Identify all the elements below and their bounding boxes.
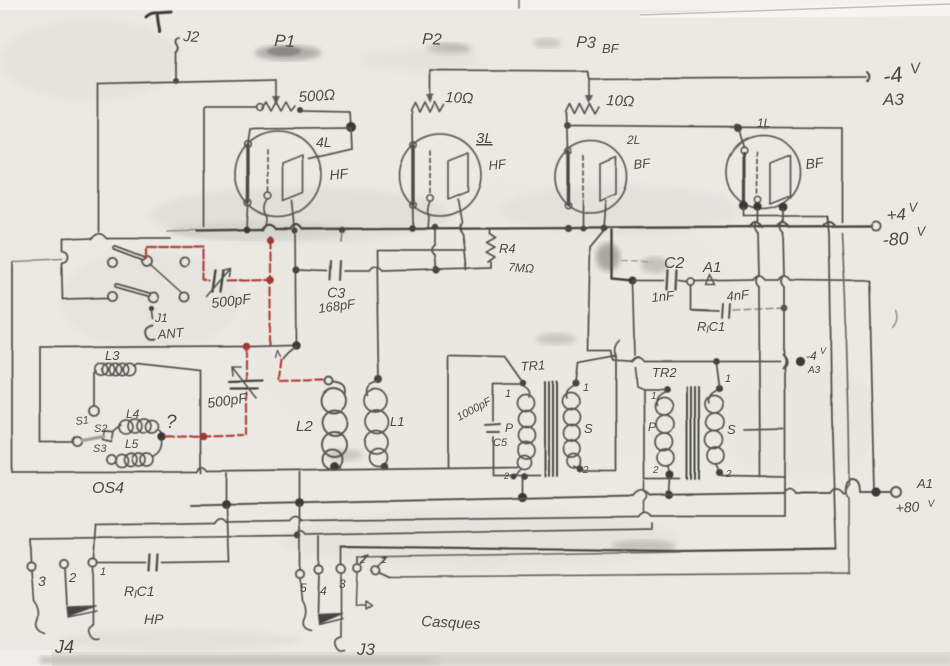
faint erased dash <box>622 261 652 262</box>
tube V2 grid dashed line <box>429 151 431 194</box>
wire +4V/-80V main bus <box>197 226 870 231</box>
jack J3 pin4 lower lead <box>318 574 319 612</box>
wire node down to tube V1 plate <box>309 128 352 159</box>
wire HP line A long <box>96 516 783 525</box>
wire OS4 box right edge <box>199 370 201 473</box>
wire right vertical from screen line down <box>841 128 843 222</box>
svg-text:4: 4 <box>320 584 327 598</box>
contact circle S1 <box>89 406 99 416</box>
wire hop of V2 lead over L1 top line <box>432 245 435 255</box>
svg-text:2: 2 <box>359 555 366 566</box>
svg-text:1L: 1L <box>757 116 770 130</box>
coil L2 top lead <box>333 382 346 395</box>
wire hops on V4 plate drop <box>780 221 787 367</box>
coil L3 loops <box>95 363 135 375</box>
switch contact circles bottom row <box>107 291 116 300</box>
transformer TR2 secondary winding <box>708 389 719 470</box>
jack J4 pin1 riser from HP line <box>94 525 96 559</box>
paper edge tick top <box>518 0 520 8</box>
capacitor C2 plates <box>667 271 677 290</box>
svg-text:1: 1 <box>100 566 106 578</box>
wire hop over left vertical <box>90 233 106 239</box>
tube V4 filament bottom dot <box>739 201 748 210</box>
wire hop over red vertical on bus <box>262 225 276 230</box>
grid-leak A1 triangle mark <box>706 275 715 285</box>
transformer TR1 secondary pin 1 dot <box>572 379 579 386</box>
wire J2 to bus <box>175 53 177 81</box>
wire V3 plate drop below bus to -4V A3 line <box>588 230 628 361</box>
transformer TR2 core laminations <box>687 387 699 479</box>
transformer TR1 secondary pin 2 dot <box>577 466 584 473</box>
svg-text:BF: BF <box>602 41 620 56</box>
capacitor C4 4nF branch: lead down and across <box>691 286 719 311</box>
wire riser ground bus to A1 bus (mid) <box>299 472 301 503</box>
node junctions on A1 bus left <box>222 500 231 509</box>
svg-text:HF: HF <box>488 156 508 173</box>
hop on line B <box>296 532 306 536</box>
red trace tuning riser vertical <box>245 348 247 434</box>
potentiometer P3 body 10ohm <box>566 104 599 114</box>
wire V3 grid pin to bus <box>582 200 584 228</box>
svg-text:Casques: Casques <box>421 613 482 633</box>
jack J3 pin3 riser from line C <box>340 548 342 565</box>
wire V4 cathode drop to TR2 S box (long vertical) <box>758 209 760 477</box>
jack J3 pin2 riser from line D <box>356 557 358 564</box>
jack J3 blade triangle <box>318 613 342 623</box>
wire OS4 box top edge <box>40 345 293 347</box>
red vertical trace <box>269 240 271 345</box>
capacitor/resistor RC network lead <box>97 562 229 563</box>
svg-text:L5: L5 <box>125 437 139 451</box>
svg-text:P: P <box>648 420 656 434</box>
svg-text:2: 2 <box>503 471 509 481</box>
tube V1 grid dashed line <box>267 150 269 192</box>
tube V4 grid pin circle and dot <box>755 197 761 203</box>
coil L1 top lead <box>367 382 378 396</box>
wire bus from corner to P1 wiper <box>98 80 276 84</box>
wire V2 grid pin to bus <box>428 201 430 229</box>
svg-text:L3: L3 <box>105 348 120 363</box>
contact S2 small square <box>102 430 113 441</box>
node TR2 S riser on -4V A3 line <box>713 358 720 365</box>
capacitor C4 4nF plates <box>722 304 730 318</box>
node on screen line at tube V4 <box>734 124 742 132</box>
svg-text:P2: P2 <box>422 31 442 49</box>
wire A1 HT bus <box>190 492 890 505</box>
potentiometer P2 body 10ohm <box>411 102 444 112</box>
terminal dot P1 right <box>297 107 303 113</box>
wire screen riser continuation down to line E <box>842 233 849 484</box>
wire L4 right lead to tap node <box>158 430 162 437</box>
svg-text:4nF: 4nF <box>726 287 751 304</box>
wire OS4 box bottom-left to S3 <box>40 441 72 443</box>
node red riser top <box>242 342 250 350</box>
wire OS4 box left edge <box>39 347 41 442</box>
svg-text:V: V <box>820 346 827 356</box>
wire TR2 S box link to plate drop <box>744 429 783 430</box>
node V3 pins at bus <box>564 224 571 231</box>
svg-text:OS4: OS4 <box>92 480 124 497</box>
wire hop on return bus <box>196 468 206 472</box>
svg-text:L2: L2 <box>296 418 313 435</box>
svg-text:HF: HF <box>329 165 351 183</box>
svg-text:S: S <box>584 421 593 436</box>
svg-text:2: 2 <box>725 469 732 480</box>
wire hops on V4 cathode drop <box>755 221 759 287</box>
svg-text:BF: BF <box>805 154 826 172</box>
wire V3 plate pin to bus <box>604 201 606 228</box>
tube V3 2L BF envelope <box>555 141 627 213</box>
red trace tap to tuning cap riser <box>166 435 243 437</box>
node A1 bus right <box>871 487 880 496</box>
svg-text:1nF: 1nF <box>651 288 676 305</box>
wire ground return bus (box bottom long line) <box>12 467 517 472</box>
wire V1 plate pin down through bus to C3 node <box>292 201 296 345</box>
jack J3 pin4 riser from line B <box>318 537 320 566</box>
wire -80V feed vertical (dark) <box>612 230 633 281</box>
variable capacitor C6 500pF plates <box>228 380 262 388</box>
tube V2 filament thick line <box>411 146 414 204</box>
transformer TR2 primary box left edge <box>644 389 680 479</box>
svg-text:?: ? <box>166 412 177 433</box>
node V1 wire at bus <box>292 228 298 234</box>
svg-text:-80: -80 <box>882 228 909 250</box>
svg-text:C5: C5 <box>493 437 508 449</box>
wire hop on -4V A3 line <box>632 357 644 361</box>
svg-text:P3: P3 <box>576 34 597 52</box>
wire feedback line E corner <box>389 498 849 577</box>
tube V4 grid cap circle <box>741 147 748 154</box>
red trace from switch to C1 cap <box>146 236 274 345</box>
svg-text:A3: A3 <box>882 90 904 109</box>
node C2 left <box>629 277 637 285</box>
resistor R4 bottom lead <box>490 262 492 268</box>
wire RC right riser to A1 bus node <box>227 506 229 562</box>
wire V2 plate pin through bus to C3 line <box>458 199 465 250</box>
wire diagonal from L2 node to red link <box>283 346 296 358</box>
wire hops over verticals on A1 line <box>753 276 790 280</box>
tube V1 filament bottom pin circle <box>245 200 252 207</box>
wire left vertical from bus corner down to switch bracket <box>97 84 99 231</box>
wire P1 right to anode node of tube V1 <box>303 111 351 128</box>
svg-text:P1: P1 <box>274 31 296 51</box>
transformer TR1 secondary winding <box>566 385 578 469</box>
wire hop over plate wire on bus <box>291 225 302 230</box>
coil L5 loops <box>116 454 154 468</box>
tube V2 filament pin circles <box>410 142 416 148</box>
svg-text:1: 1 <box>651 391 657 402</box>
node junction on bus at J2 <box>173 78 179 84</box>
tube V4 1L BF envelope <box>726 135 800 209</box>
potentiometer P2 wiper arrow <box>429 88 431 98</box>
jack J3 pin circles <box>296 570 304 578</box>
transformer TR2 secondary pin 1 dot <box>715 384 722 391</box>
svg-text:1: 1 <box>725 373 731 385</box>
wire L5 right lead up to tap node <box>153 441 162 457</box>
node junctions on bus <box>339 227 345 233</box>
terminal circle A1 +80V <box>891 487 901 497</box>
svg-text:1: 1 <box>381 555 387 566</box>
tube V4 plate pin dot <box>779 203 788 212</box>
wire faint line from bracket notch to far-left vertical <box>12 260 62 262</box>
big hop on A1 HT bus <box>845 479 860 493</box>
jack J3 pin2 tick <box>360 555 368 564</box>
coil L4 loops <box>119 419 159 434</box>
svg-text:2: 2 <box>582 465 589 476</box>
wire C2 left lead <box>633 280 664 282</box>
resistor R4 zigzag <box>486 233 495 262</box>
tube V1 grid pin circle <box>265 193 272 200</box>
wire +4V/-80V main bus faint left lead <box>167 230 197 231</box>
tube V3 anode plate <box>600 157 616 201</box>
wire V4 grid from screen line <box>739 130 744 147</box>
transformer TR1 core laminations <box>545 382 557 476</box>
transformer TR1 primary winding <box>515 385 530 475</box>
switch contact circles top row <box>107 257 116 266</box>
node L4/L5 tap <box>158 433 166 441</box>
wire L1 riser and top line <box>377 250 466 379</box>
jack J3 pin3 lower lead with C hook <box>335 573 345 652</box>
wire L3 right lead to box right edge <box>133 363 200 370</box>
variable capacitor C1 500pF plates <box>213 271 224 292</box>
switch rotor diagonal <box>150 264 182 293</box>
coil L1 bottom terminal dot <box>380 462 388 470</box>
terminal circle +4V/-80V <box>871 221 880 230</box>
wire TR2 S pin1 riser to -4V A3 line <box>716 363 719 386</box>
svg-text:500Ω: 500Ω <box>298 86 336 106</box>
switch S bracket bottom edge <box>63 298 107 299</box>
svg-text:L1: L1 <box>390 414 404 429</box>
tube V3 grid dashed line <box>582 156 584 198</box>
svg-text:RlC1: RlC1 <box>697 319 725 336</box>
jack J4 pin3 riser <box>30 539 31 562</box>
coil L2 bottom lead <box>336 466 340 468</box>
svg-text:3: 3 <box>339 577 346 591</box>
svg-text:J4: J4 <box>54 637 74 657</box>
antenna T symbol <box>146 12 171 32</box>
svg-text:1: 1 <box>583 382 589 394</box>
jack J1 lead squiggle <box>151 310 152 318</box>
contact circle L5 left <box>106 454 115 463</box>
stray curl mark <box>892 310 896 327</box>
wire C3 line from V1 plate node to R4 <box>296 268 491 271</box>
switch S bracket left edge with notch <box>62 240 68 299</box>
tube V1 filament top pin circle <box>245 141 252 148</box>
wire 1000pF branch vertical <box>447 356 449 467</box>
svg-text:R4: R4 <box>499 241 516 256</box>
jack J4 pin3 lower hook <box>31 570 45 634</box>
red node dots <box>266 236 273 243</box>
svg-text:5: 5 <box>300 581 307 595</box>
terminal mark -4V end <box>867 72 869 81</box>
svg-text:P: P <box>505 421 513 435</box>
svg-text:S3: S3 <box>93 443 107 455</box>
svg-text:S2: S2 <box>94 423 107 435</box>
node grid-wire junction on bus <box>244 227 251 234</box>
svg-text:2L: 2L <box>626 133 640 147</box>
hook above TR1 secondary box <box>615 341 620 356</box>
wire TR2 feed from C2 node <box>633 283 644 389</box>
wire V4 filament link horizontal <box>744 208 827 222</box>
coil L1 loops <box>365 390 389 467</box>
jack J4 pin circles <box>27 562 35 570</box>
tube V3 filament thick line <box>566 152 569 204</box>
svg-text:A3: A3 <box>807 365 821 376</box>
coil L2 bottom terminal dot <box>330 462 339 471</box>
wire A1 line to right corner <box>695 280 869 281</box>
wire 4nF to right vertical (faint dashes) <box>733 308 784 310</box>
wire C2 right lead to A1 node <box>679 281 687 282</box>
wire TR2 box left edge extension over buses <box>643 481 645 512</box>
svg-text:HP: HP <box>144 611 164 627</box>
jack J3 pin5 riser from A1 bus <box>299 505 301 570</box>
jack J3 pin2 lower lead and mini arrow <box>356 572 372 609</box>
node on C3 line <box>292 266 299 273</box>
wire -4V bus segment P2 top <box>430 70 866 88</box>
wire hop over L1 riser on C3 line <box>369 267 382 271</box>
switch blade S3-S2 (faint) <box>82 436 103 440</box>
wire V1 filament pin to cathode bus <box>247 206 248 229</box>
wire J3 pin1 diagonal to line E <box>378 572 389 577</box>
tube V2 3L HF envelope <box>399 134 481 216</box>
transformer TR2 primary winding <box>656 391 670 472</box>
wire TR1 P pin2 to A1 bus <box>521 478 523 497</box>
svg-text:7MΩ: 7MΩ <box>508 260 535 276</box>
wire feedback line C (dark) corner <box>341 547 836 551</box>
svg-text:-4: -4 <box>881 61 904 88</box>
potentiometer P1 body 500ohm <box>262 102 295 111</box>
switch arm 1 (double stroke) <box>114 247 143 258</box>
svg-text:S: S <box>727 422 736 437</box>
wire V4 plate drop long vertical to HP line <box>783 209 785 516</box>
svg-text:ANT: ANT <box>156 325 185 342</box>
svg-text:3L: 3L <box>476 130 493 147</box>
tube V2 grid pin circle <box>427 195 433 201</box>
coil L2 loops <box>322 389 348 470</box>
wire hops on A1 HT bus <box>634 489 843 497</box>
svg-text:C2: C2 <box>664 255 685 272</box>
svg-text:3: 3 <box>38 573 46 589</box>
contact circle S3 <box>72 436 81 445</box>
wire screen line to tube V4 grid (long horizontal) <box>568 126 842 128</box>
wire V2 lead below bus to C3 line <box>435 229 436 270</box>
jack J1 C hook (ANT) <box>145 325 154 339</box>
wire L3 left lead down to S1 <box>94 371 96 405</box>
svg-text:TR2: TR2 <box>652 365 677 380</box>
wire corner down from A1 line (right) <box>869 281 874 490</box>
tube V2 anode plate <box>448 153 468 199</box>
hops on HP line A <box>214 513 651 523</box>
terminal circle A1 node <box>687 278 694 285</box>
RC capacitor plates <box>149 555 158 571</box>
red trace link to L2 <box>278 359 323 381</box>
node TR1 at A1 bus <box>517 492 526 501</box>
svg-text:2: 2 <box>652 465 659 476</box>
node TR1 P terminal 1 <box>520 380 526 386</box>
wire 1000pF top link to TR1 P terminal <box>448 356 521 380</box>
jack J4 pin2 lead and contact blade <box>65 568 67 605</box>
wire line B (J4 pin3 to mid) <box>30 523 652 539</box>
resistor R4 7M: top lead from bus <box>488 229 490 233</box>
tube V3 filament pin circles <box>565 148 571 154</box>
wire line D from J3 pin2 <box>357 552 680 557</box>
jack J2 contact squiggle <box>176 38 179 53</box>
wire V1 grid pin wavy to bus <box>263 199 268 231</box>
wire far-left vertical <box>11 262 13 472</box>
variable capacitor C6 arrow <box>231 366 256 398</box>
transformer TR2 primary pin 2 dot <box>666 471 674 479</box>
coil L1 top terminal dot <box>375 376 383 384</box>
wire corner HP line A to V4 plate drop <box>783 515 785 517</box>
svg-text:TR1: TR1 <box>520 357 546 374</box>
tube V1 filament thick line <box>246 145 249 202</box>
svg-text:RlC1: RlC1 <box>124 583 154 601</box>
tube V1 4L HF envelope <box>235 131 321 217</box>
wire -4V A3 mid line with hop <box>628 360 780 362</box>
node TR2 at A1 bus <box>665 491 673 499</box>
node P3/grid junction <box>565 123 572 130</box>
transformer TR2 secondary pin 2 dot <box>716 469 723 476</box>
svg-text:J1: J1 <box>154 311 168 325</box>
transformer TR2 secondary box bottom <box>722 476 785 477</box>
potentiometer P1 wiper arrow <box>275 80 277 100</box>
svg-text:S1: S1 <box>75 414 90 428</box>
tube V4 filament thick line <box>742 153 745 204</box>
transformer TR1 primary pin 2 dots <box>510 473 516 479</box>
jack J3 pin1 tick <box>378 557 387 566</box>
terminal circle P1 left <box>257 104 264 111</box>
svg-text:A1: A1 <box>916 476 933 491</box>
variable capacitor C1 arrow <box>207 269 231 297</box>
svg-text:BF: BF <box>633 155 652 172</box>
red node on tap trace <box>199 432 207 440</box>
hop line E over A1 bus <box>846 484 850 498</box>
wire hops over tube V4 leads on bus <box>750 222 835 228</box>
jack J4 blade triangle <box>67 606 96 616</box>
wire stub below node <box>341 232 342 241</box>
svg-text:A1: A1 <box>702 259 721 276</box>
wire riser ground bus to A1 bus (left) <box>225 473 227 503</box>
wire node to grid cap of tube V1 <box>248 128 351 143</box>
node TR2 P terminal 1 <box>664 386 671 393</box>
jack J1 contact dot <box>148 305 153 310</box>
jack J3 pin5 lower hook <box>300 578 311 630</box>
wire L4 left lead from S2 <box>113 425 121 431</box>
svg-text:10Ω: 10Ω <box>606 92 635 110</box>
svg-text:1: 1 <box>505 388 511 400</box>
capacitor C3 plates <box>330 261 341 280</box>
junction blob <box>346 122 356 132</box>
svg-text:10Ω: 10Ω <box>445 89 474 107</box>
jack J4 pin1 lower lead with C hook <box>89 567 99 640</box>
coil L2 top terminal circle <box>325 377 333 385</box>
wire P2 left terminal down to cathode bus <box>412 111 413 227</box>
capacitor C5 1000pF plates in box edge <box>485 424 500 432</box>
svg-text:J2: J2 <box>182 28 201 46</box>
svg-text:-4: -4 <box>806 349 817 363</box>
potentiometer P3 wiper arrow <box>588 79 590 99</box>
svg-text:4L: 4L <box>316 134 332 150</box>
wire V4 link drop to feedback line C (long vertical) <box>827 216 836 549</box>
wire P3 left terminal to grid line of tube V3 <box>567 113 568 150</box>
svg-text:+4: +4 <box>886 205 907 225</box>
svg-text:2: 2 <box>68 570 77 585</box>
node C3 line / V2 lead <box>432 266 439 273</box>
red trace cap C1 to red node <box>228 280 266 281</box>
wire TR2 P pin2 to A1 bus <box>669 477 670 495</box>
tube V1 anode plate <box>283 155 303 201</box>
transformer TR1 primary box left edge with C5 gap <box>493 384 540 475</box>
